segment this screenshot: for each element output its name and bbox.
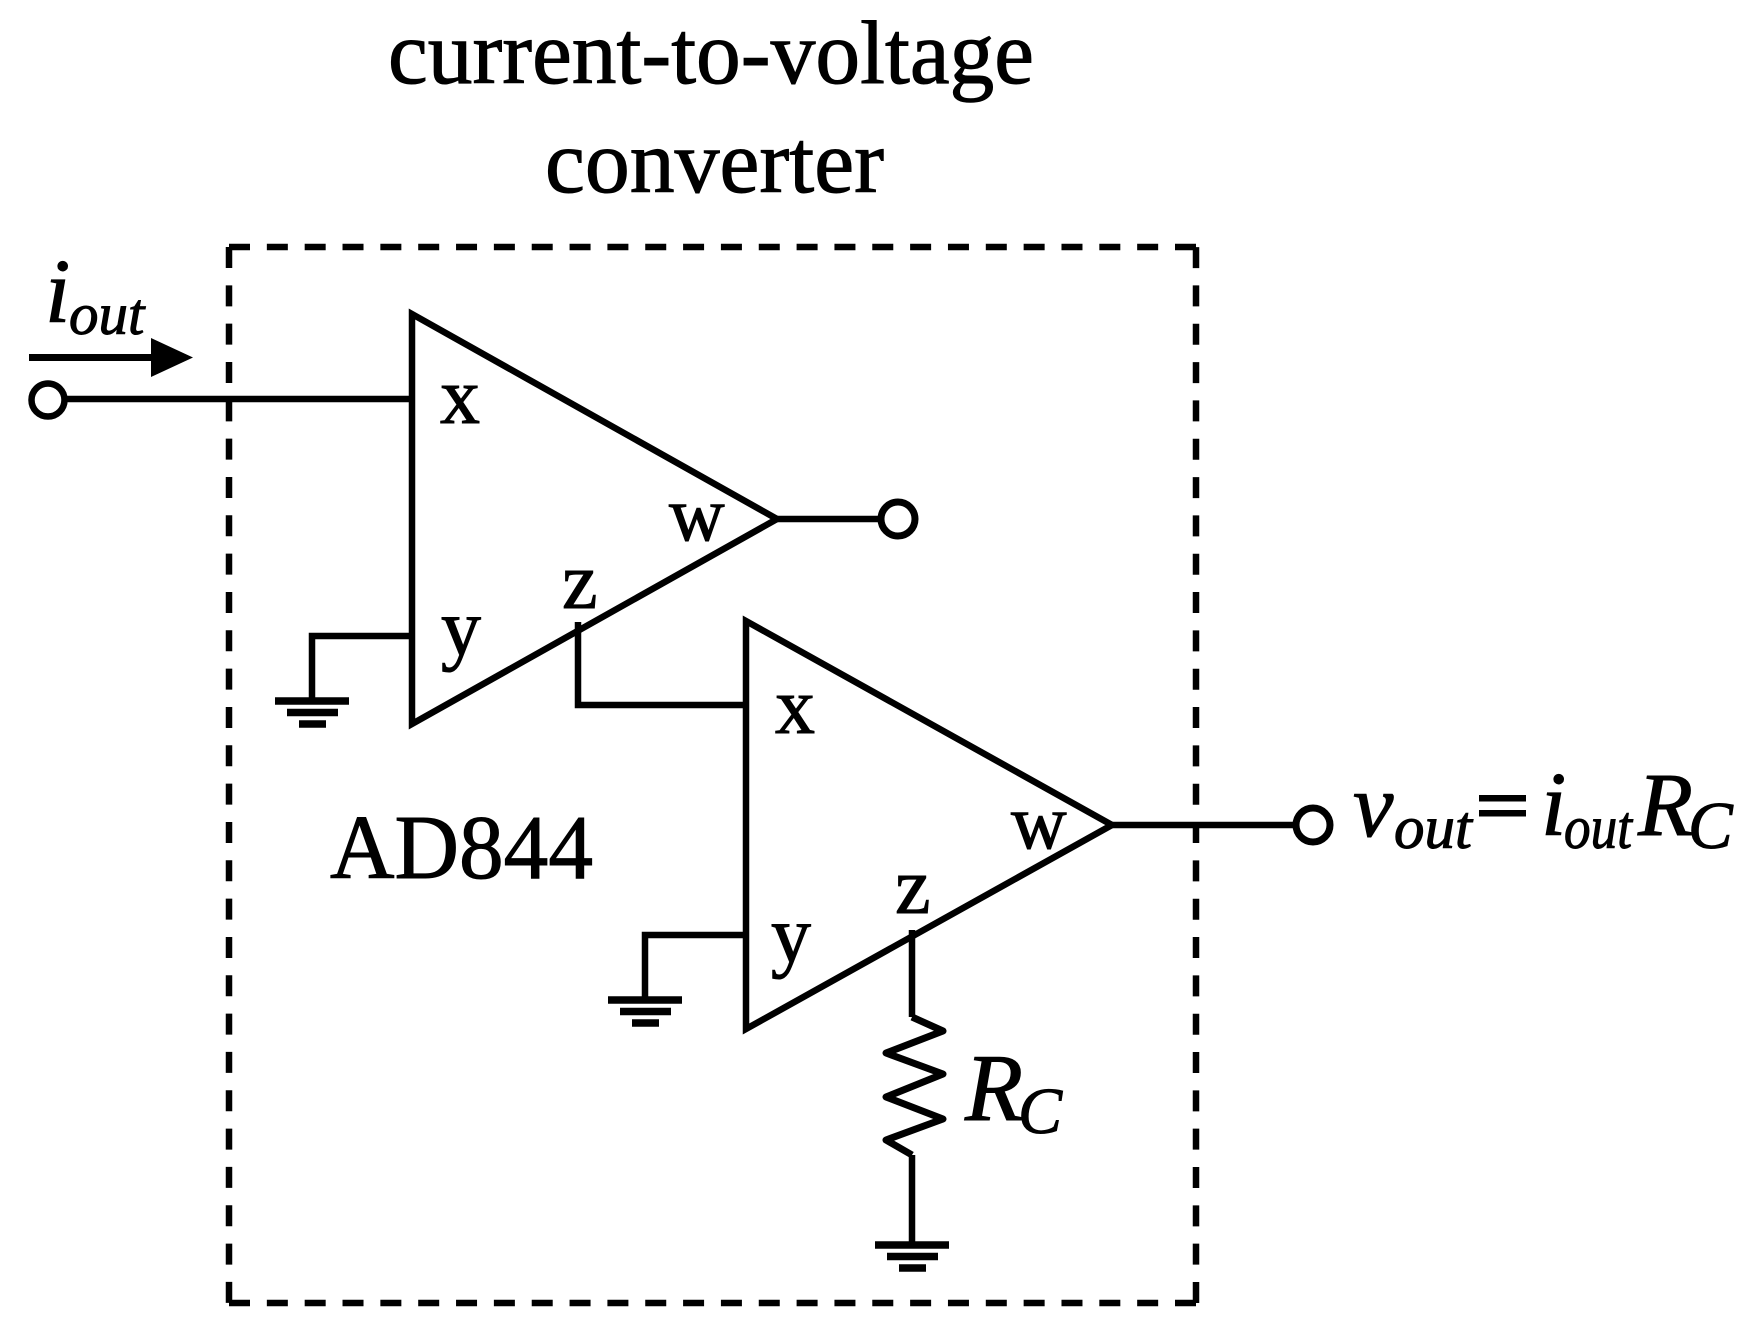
svg-text:R: R <box>964 1035 1023 1141</box>
label i_out <box>45 241 146 347</box>
op-amp U1 (AD844 current conveyor 1) <box>412 314 777 724</box>
label RC (resistor value) <box>964 1035 1063 1148</box>
svg-text:v: v <box>1353 755 1394 856</box>
wire: y1 to ground <box>312 636 412 700</box>
label vout = iout RC <box>1353 754 1734 863</box>
ground (U2 y pin) <box>608 1000 682 1023</box>
svg-text:converter: converter <box>545 113 884 212</box>
wire: input to x of U1 <box>65 396 412 403</box>
svg-text:R: R <box>1637 756 1693 855</box>
wire: y2 to ground <box>645 935 746 999</box>
svg-text:y: y <box>441 585 481 673</box>
svg-text:x: x <box>440 353 480 441</box>
current arrow <box>29 338 193 377</box>
svg-text:C: C <box>1688 789 1734 863</box>
svg-text:out: out <box>1394 795 1474 862</box>
ground (below RC) <box>875 1245 949 1268</box>
terminal circle at w2 (vout) <box>1296 808 1330 842</box>
svg-text:y: y <box>771 892 811 980</box>
wire: resistor to ground <box>909 1155 916 1244</box>
svg-text:out: out <box>69 281 146 347</box>
wire: z1 down and right to x of U2 <box>578 622 746 705</box>
svg-text:AD844: AD844 <box>330 797 593 898</box>
wire: w1 output <box>777 516 878 523</box>
svg-text:x: x <box>775 663 815 751</box>
resistor RC zigzag <box>886 1017 943 1155</box>
svg-text:i: i <box>1541 754 1566 855</box>
ground (U1 y pin) <box>275 701 349 724</box>
dashed box (converter boundary) <box>229 247 1196 1303</box>
input terminal circle <box>32 384 65 417</box>
op-amp U2 (AD844 current conveyor 2) <box>746 621 1112 1029</box>
title: current-to-voltage converter <box>388 4 1034 212</box>
svg-text:current-to-voltage: current-to-voltage <box>388 4 1034 103</box>
wire: z2 down to resistor <box>909 930 916 1017</box>
wire: w2 output <box>1112 822 1294 829</box>
svg-text:C: C <box>1018 1075 1063 1148</box>
svg-text:z: z <box>895 843 931 931</box>
svg-text:z: z <box>562 538 598 626</box>
terminal circle at w1 <box>881 502 915 536</box>
svg-text:w: w <box>669 471 725 557</box>
svg-text:i: i <box>45 241 70 342</box>
svg-text:out: out <box>1564 795 1634 862</box>
svg-text:w: w <box>1011 779 1067 865</box>
